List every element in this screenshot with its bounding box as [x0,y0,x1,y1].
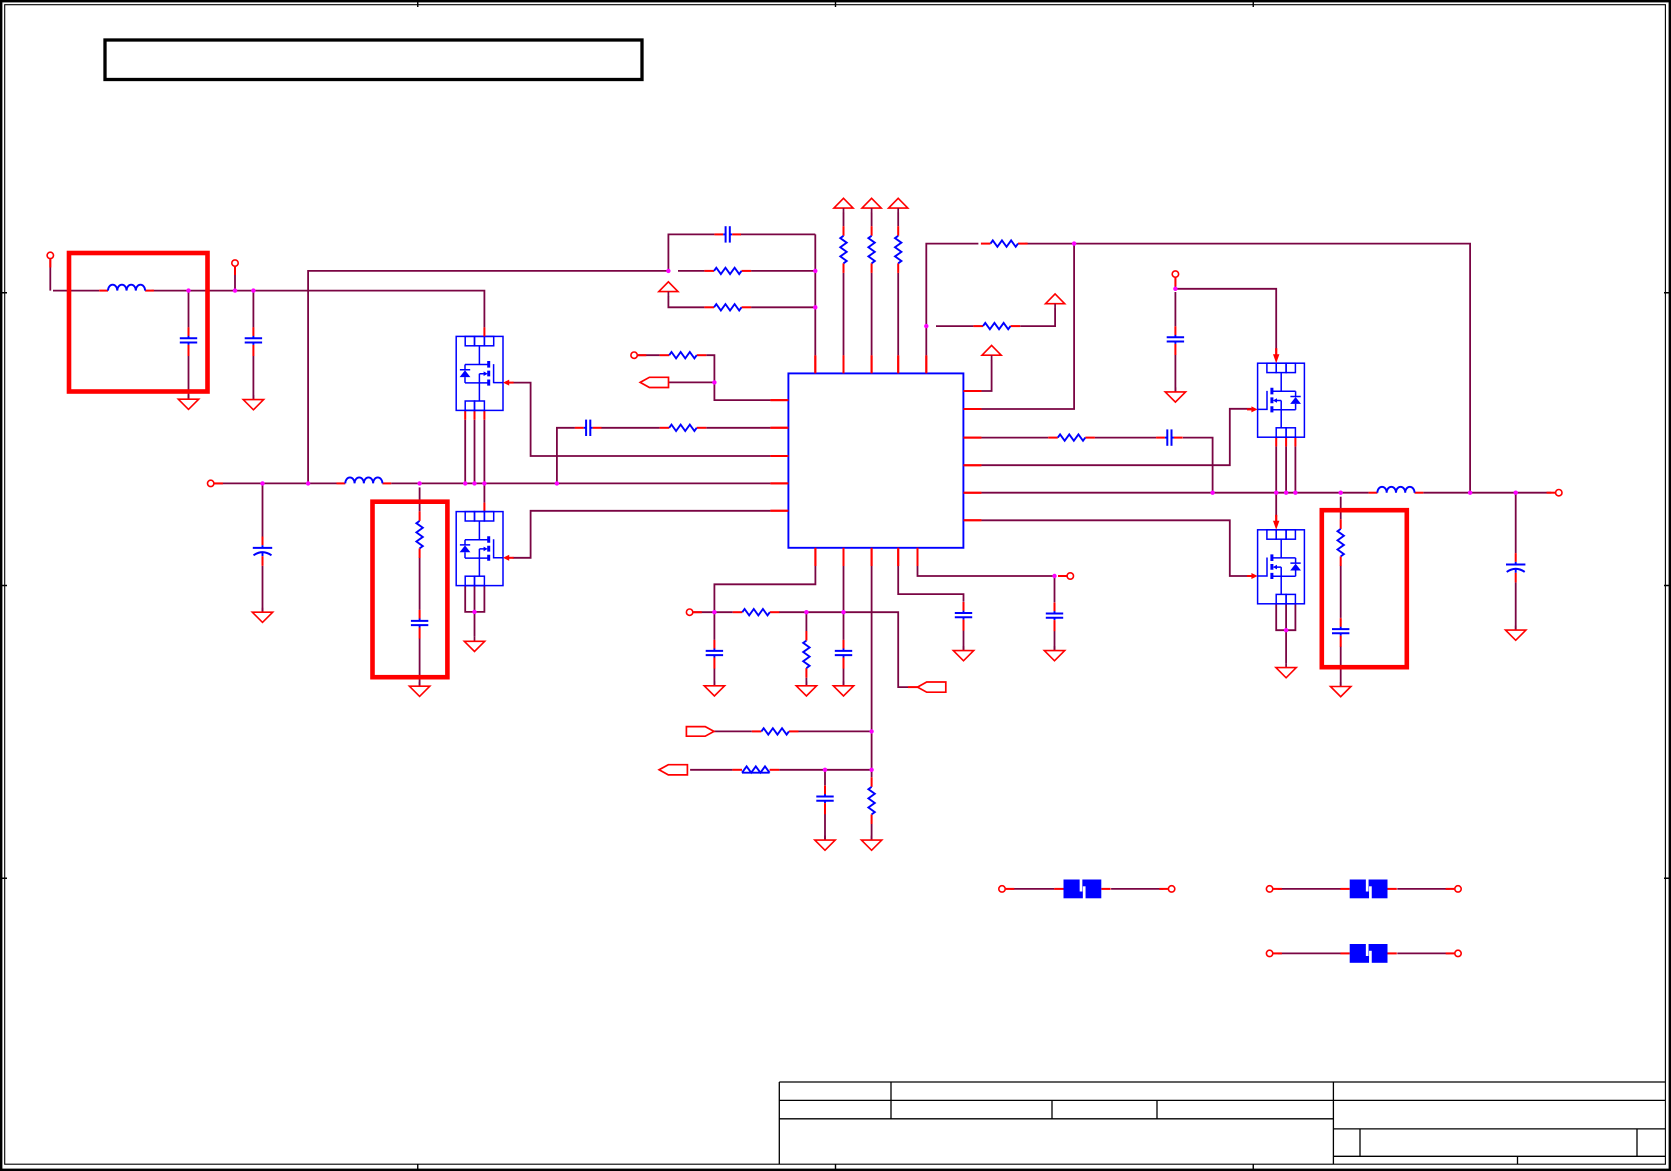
wire SW left rail b [391,482,770,484]
wire box3 mid [1340,566,1342,618]
resistor R4 sense lower [973,323,1020,329]
node J24 [869,768,873,772]
fuse F1 [1054,879,1110,899]
resistor R16 snubber left [416,511,422,558]
resistor R1 feedback top [704,268,751,274]
power P4 pullup [889,198,908,213]
node J25 [1052,574,1056,578]
wire boot r [981,437,1048,439]
ground G1 [178,395,198,410]
node J21 [841,610,845,614]
node J26 [1210,491,1214,495]
wire M2 source center [474,586,476,637]
red highlight box 3 [1322,510,1407,667]
wire bpin4 [898,566,963,602]
ground G15 [1331,682,1351,697]
capacitor C13 snubber right [1332,618,1349,647]
wire L2 b [799,730,872,732]
IC U1 [788,373,963,547]
transistor Q2 low-side left [456,512,513,586]
node J5 [813,269,817,273]
wire fuse2 left [1278,888,1341,890]
ground G14 [1276,663,1296,678]
node J23 [823,768,827,772]
red highlight box 2 [373,502,448,678]
resistor R5 pullup [840,226,846,273]
power P6 vcc [982,345,1001,360]
title block table [779,1082,1665,1164]
wire fuse1 right [1111,888,1163,890]
capacitor C5 boot [1156,429,1183,445]
wire pullup [843,213,845,227]
wire bpin5 cap gnd [1054,631,1056,651]
node J32 [1514,491,1518,495]
ground G5 [464,637,484,652]
terminal T10 fuse1 R [1159,886,1175,892]
wire SW right rail [981,492,1368,494]
terminal T14 fuse3 R [1446,950,1462,956]
wire M3 source stub [1285,446,1287,492]
title box [105,40,642,80]
node J22 [869,729,873,733]
fuse F2 [1340,879,1396,899]
wire L1 a [693,611,733,613]
wire VIN input drop [49,259,51,290]
wire fuse2 right [1397,888,1449,890]
wire C top right gnd [1174,355,1176,392]
resistor R17 snubber right [1338,519,1344,566]
node J16 [555,481,559,485]
wire pullup [871,213,873,227]
node J1 [186,288,190,292]
node J2 [233,288,237,292]
wire M1 gate net [513,383,771,456]
transistor Q1 high-side left [456,336,513,410]
terminal T9 fuse1 L [999,886,1015,892]
wire box2 mid [419,558,421,610]
IC U1 left pins [770,400,788,511]
node J14 [472,481,476,485]
power P2 pullup [834,198,853,213]
node J31 [1468,491,1472,495]
wire bpin3 gnd [871,824,873,840]
node J27 [1274,491,1278,495]
IC U1 top pins [815,355,926,373]
node J6 [813,305,817,309]
wire fuse3 left [1278,952,1341,954]
node J15 [482,481,486,485]
terminal T8 sw right [1547,490,1562,496]
wire FB r2 right [751,306,815,308]
wire fuse3 right [1397,952,1449,954]
wire fuse1 left [1010,888,1054,890]
node J8 [1072,241,1076,245]
arrow into Q4 drain [1273,515,1279,530]
node J13 [463,481,467,485]
port P_MODE left arrow [659,765,687,775]
capacitor C8 bottom [706,640,723,669]
arrow into Q3 drain [1273,348,1279,363]
wire box3 gnd [1340,646,1342,686]
terminal T4 en [631,352,646,358]
node J4 [666,269,670,273]
wire FB loop top [668,234,714,271]
wire boot mid [1095,437,1156,439]
wire M2 gate net [513,511,771,558]
ground G7 [796,681,816,696]
IC U1 right pins [963,391,981,520]
terminal T12 fuse2 R [1446,886,1462,892]
wire M4 source bar [1276,604,1295,630]
capacitor C7 snubber left [411,610,428,639]
wire FB node drop [814,234,816,355]
node J28 [1284,491,1288,495]
wire RA to corner [936,325,973,327]
capacitor C15 bottom [816,786,833,815]
resistor R12 bottom [752,728,799,734]
wire C1 to gnd [188,356,190,399]
terminal T7 right cap [1172,271,1178,286]
wire pullup lower [843,273,845,356]
resistor R6 pullup [868,226,874,273]
resistor R15 divider [868,777,874,824]
ground G13 [1165,387,1185,402]
wire pullup lower [897,273,899,356]
terminal T5 bottom [686,609,701,615]
wire L1 c1 gnd [713,668,715,686]
inductor L1 input filter [99,285,154,291]
capacitor C11 bottom [1046,603,1063,632]
transistor Q3 high-side right [1247,363,1304,437]
wire box3 top [1340,497,1342,520]
wire M1 source stub [464,420,466,484]
wire M4 drain stub [1275,493,1277,517]
capacitor C9 bottom [835,640,852,669]
wire en to pin [714,382,770,400]
resistor R14 divider [803,631,809,678]
wire L3 cap drop [824,770,826,786]
wire right cap input stub [1174,278,1176,289]
wire pin2 riser [981,244,1074,409]
terminal T1 vin [47,252,53,267]
ground G9 [861,836,881,851]
wire RA corner up [1020,308,1055,326]
wire pullup lower [871,273,873,356]
resistor R3 sense upper [981,240,1028,246]
wire en corner [706,355,714,382]
inductor L3 SW right [1369,487,1424,493]
node J11 [306,481,310,485]
wire M3 source stub [1275,446,1277,492]
wire FB branch [308,271,668,484]
wire en resistor net [638,354,660,356]
wire VCC pin [981,360,991,391]
port P_EN left arrow [640,377,668,387]
ground G4 [409,682,429,697]
resistor R10 boot [1048,434,1095,440]
node J9 [1173,287,1177,291]
wire L1 c1 drop [713,612,715,640]
wire cout right drop [1515,493,1517,553]
terminal T2 vin aux [232,260,238,275]
ground G16 [1506,626,1526,641]
wire L2 [714,730,752,732]
wire comp mid [601,427,659,429]
node J33 [1284,628,1288,632]
IC U1 bottom pins [815,548,917,566]
capacitor C10 bottom [955,602,972,631]
capacitor C14 bulk right [1506,553,1525,582]
wire C2 drop [252,291,254,328]
resistor R7 pullup [895,226,901,273]
wire C2 to gnd [252,356,254,400]
wire M4 source center [1285,604,1287,663]
power P5 sense [1046,294,1065,309]
wire comp riser [557,428,575,484]
wire comp right [706,427,770,429]
fuse F3 [1340,944,1396,964]
terminal T3 sw left [208,480,223,486]
node J12 [417,481,421,485]
wire bpin1 [714,566,815,612]
wire M2 source bar [465,586,484,612]
wire L3 [690,769,732,771]
inductor L2 SW left [337,477,392,483]
capacitor C2 input [245,327,262,356]
node J17 [712,380,716,384]
wire L1 r gnd [805,678,807,686]
wire top net mid [1025,244,1470,493]
wire FB power drop [668,296,704,307]
wire lg gate net [981,520,1251,576]
wire M3 drain feed [1175,289,1276,350]
capacitor C1 input [180,327,197,356]
capacitor C12 vcc right [1167,326,1184,355]
ground G6 [704,681,724,696]
wire VIN terminal 2 stub [234,267,236,291]
terminal T11 fuse2 L [1266,886,1282,892]
resistor R9 en [660,352,707,358]
wire bpin5 cap drop [1054,576,1056,602]
wire M2 drain stub [483,483,485,502]
transistor Q4 low-side right [1247,530,1304,604]
wire cout right gnd [1515,582,1517,630]
wire box2 top [419,487,421,511]
wire C top right drop [1174,292,1176,326]
wire FB r1 right [751,270,815,272]
wire M1 source stub [483,420,485,484]
red highlight box 1 [69,253,208,392]
power P3 pullup [862,198,881,213]
terminal T13 fuse3 L [1266,950,1282,956]
wire box2 gnd [419,638,421,686]
capacitor C6 bulk left [253,537,272,566]
ground G12 [1044,646,1064,661]
capacitor C3 feedback [714,226,741,242]
wire L3 cap gnd [824,814,826,840]
node J7 [924,324,928,328]
node J10 [260,481,264,485]
port P_SYNC right flag [686,727,714,737]
wire VIN net b [152,291,485,328]
wire C1 drop [188,291,190,328]
wire boot corner [1183,438,1213,493]
node J18 [472,610,476,614]
wire bpin2 gnd [843,668,845,686]
wire en flag wire [669,381,715,383]
wire L1 b [779,612,908,687]
power P1 feedback [659,282,678,297]
wire bpin2 [843,566,845,640]
ground G3 [252,608,272,623]
resistor R8 comp [660,425,707,431]
wire SW right rail b [1423,492,1551,494]
ground G8 [833,681,853,696]
wire L1 r drop [805,612,807,631]
wire FB r1 left [678,270,704,272]
wire hg gate net [981,409,1251,465]
node J3 [251,288,255,292]
node J29 [1293,491,1297,495]
ground G11 [953,646,973,661]
wire M1 source stub [474,420,476,484]
wire cin gnd [262,566,264,612]
terminal T6 right bottom [1058,573,1073,579]
capacitor C4 comp [575,420,602,436]
wire bpin4 gnd [963,630,965,650]
resistor R13 bottom [732,766,779,772]
port P_FLT left arrow [918,682,946,692]
node J30 [1339,491,1343,495]
ground G10 [815,836,835,851]
wire VSNS riser [926,244,978,356]
resistor R2 feedback lower [704,304,751,310]
resistor R11 bottom [733,609,780,615]
wire FB cap to node [740,233,815,235]
wire bpin5 [918,566,1055,576]
wire cin drop [262,483,264,536]
wire M3 source stub [1294,446,1296,492]
node J19 [712,610,716,614]
wire VIN net [53,290,99,292]
ground G2 [243,395,263,410]
wire pullup [897,213,899,227]
wire SW left rail [214,482,336,484]
wire L3 b [779,769,871,771]
node J20 [804,610,808,614]
wire bpin3 [871,566,873,777]
